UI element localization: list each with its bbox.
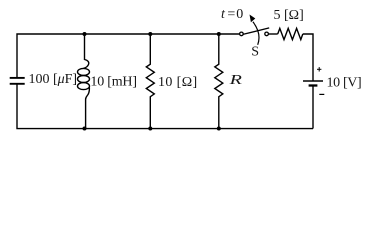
junction node: bottom R [217, 127, 221, 131]
svg-text:R: R [228, 73, 242, 88]
wire: bottom rail and left-bottom vertical [17, 84, 313, 128]
plus sign [317, 67, 321, 71]
svg-text:S: S [251, 44, 259, 59]
junction node: top R [217, 32, 221, 36]
svg-text:10 [mH]: 10 [mH] [90, 75, 137, 90]
battery V1 short plate (-) [309, 84, 318, 86]
capacitor C1 100uF (left branch plates) [10, 78, 25, 84]
wire: battery to bottom-right corner [312, 86, 314, 129]
resistor R2 5ohm (horizontal zigzag) [278, 28, 303, 39]
svg-text:t=0: t=0 [221, 7, 243, 22]
svg-text:100 [μF]: 100 [μF] [29, 72, 78, 87]
minus sign [319, 93, 324, 95]
junction node: top 10ohm [148, 32, 152, 36]
resistor R (vertical zigzag) [215, 34, 223, 129]
svg-text:10 [V]: 10 [V] [327, 76, 362, 91]
inductor L1 10mH (coil branch) [78, 34, 90, 128]
wire: switch to resistor 5ohm [268, 33, 277, 35]
junction node: bottom 10ohm [148, 127, 152, 131]
svg-text:10 [Ω]: 10 [Ω] [158, 75, 197, 90]
resistor R1 10ohm (vertical zigzag) [146, 34, 154, 129]
junction node: bottom inductor [83, 127, 87, 131]
junction node: top inductor [83, 32, 87, 36]
switch S left contact [240, 32, 244, 36]
wire: top rail from top-left corner to switch left contact [17, 34, 239, 77]
svg-text:5 [Ω]: 5 [Ω] [274, 8, 304, 23]
battery V1 10V long plate (+) [303, 80, 323, 82]
switch S right contact [265, 32, 269, 36]
wire: resistor to top-right corner down to battery [303, 34, 313, 81]
switch motion arc arrow [253, 22, 259, 45]
switch S lever (open) [243, 28, 269, 34]
